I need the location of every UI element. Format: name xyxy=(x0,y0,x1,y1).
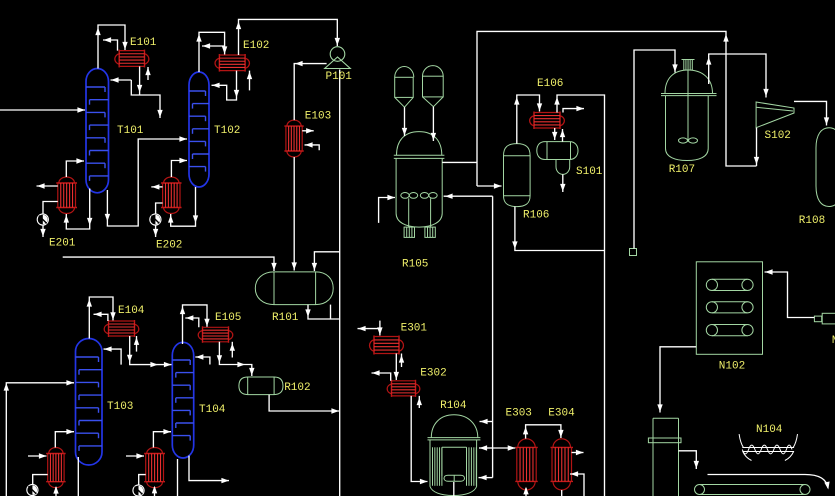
wire to E204 bottom xyxy=(152,486,157,496)
belt conveyor xyxy=(695,485,811,495)
heat exchanger E104 xyxy=(104,320,139,337)
svg-text:R108: R108 xyxy=(799,215,825,227)
wire T101 bottoms to T102 xyxy=(105,136,187,226)
svg-text:N104: N104 xyxy=(756,424,783,436)
screw feeder N104 xyxy=(739,434,797,460)
wire E104 outlet to T104 xyxy=(127,336,172,367)
wire E304 bottom xyxy=(561,490,563,496)
pump P101 xyxy=(325,47,351,69)
wire R101 outlet 2 xyxy=(330,305,332,319)
svg-text:E104: E104 xyxy=(118,305,145,317)
wire to E303 xyxy=(493,445,516,450)
svg-text:E102: E102 xyxy=(243,40,269,52)
wire pump discharge xyxy=(40,225,45,237)
wire E204 to pump xyxy=(139,475,146,485)
svg-text:N102: N102 xyxy=(719,361,745,373)
wire T103 overhead to E104 xyxy=(87,297,116,339)
wire E106 out down xyxy=(554,95,604,496)
wire T103 bottoms down xyxy=(77,457,79,496)
wire R106 bottoms xyxy=(512,207,604,251)
conveyor feeder N102 xyxy=(696,262,762,355)
wire belt discharge xyxy=(708,475,830,490)
wire to E203 bottom xyxy=(53,486,58,496)
wire to R104 dome xyxy=(480,419,493,424)
svg-text:E303: E303 xyxy=(506,407,532,419)
wire E303 to E304 xyxy=(523,425,564,439)
junction box xyxy=(630,249,637,256)
heat exchanger E105 xyxy=(198,326,233,343)
wire S101 bottoms xyxy=(560,174,565,192)
wire reflux to T101 xyxy=(111,77,132,82)
heat exchanger E201 xyxy=(56,177,77,214)
wire E105 vent stub xyxy=(185,315,199,327)
wire E101 vent stub xyxy=(103,37,118,50)
wire bin2 to R105 xyxy=(431,107,436,141)
wire to R106 xyxy=(477,183,502,188)
svg-text:E101: E101 xyxy=(130,37,157,49)
wire S101 to E106 xyxy=(560,129,565,142)
wire P101 to E103 xyxy=(294,61,326,120)
chute S102 xyxy=(756,102,794,128)
wire R105 nozzle xyxy=(442,161,477,163)
svg-text:S101: S101 xyxy=(576,166,603,178)
svg-text:R107: R107 xyxy=(669,164,695,176)
pump P-E204 xyxy=(133,485,144,496)
wire branch to R101 xyxy=(312,252,340,271)
svg-text:R101: R101 xyxy=(272,312,299,324)
wire T104 overhead to E105 xyxy=(180,305,210,344)
wire E203 return to T103 xyxy=(55,429,74,448)
wire E103 coolant out xyxy=(302,128,314,133)
standpipe silo xyxy=(648,418,681,496)
wire to R104 lower xyxy=(479,475,493,480)
wire reflux to T104 xyxy=(195,354,210,364)
wire T102 bottoms to E202 xyxy=(168,187,198,226)
wire E102 vent stub xyxy=(202,43,225,48)
wire E203 side xyxy=(28,453,47,458)
wire E101 coolant in xyxy=(145,67,150,80)
svg-text:E106: E106 xyxy=(537,78,563,90)
svg-text:R102: R102 xyxy=(284,382,310,394)
wire pump discharge 2 xyxy=(153,225,158,237)
wire bin1 to R105 xyxy=(402,107,407,136)
svg-text:R104: R104 xyxy=(440,400,467,412)
wire S102 bottoms xyxy=(754,128,759,166)
svg-text:R105: R105 xyxy=(402,259,428,271)
wire T104 bottoms down xyxy=(177,459,179,496)
wire R101 bottoms xyxy=(305,305,339,319)
wire E202 to pump xyxy=(156,203,163,214)
pump P-E203 xyxy=(27,484,38,495)
column T102 xyxy=(189,72,209,187)
svg-text:E301: E301 xyxy=(401,323,428,335)
wire E302 coolant in xyxy=(417,396,422,408)
svg-text:P101: P101 xyxy=(326,71,353,83)
svg-text:E302: E302 xyxy=(420,368,446,380)
heat exchanger E204 xyxy=(144,448,165,488)
pump P-E201 xyxy=(37,214,48,225)
reactor R105 xyxy=(394,132,445,238)
wire E303 bottom xyxy=(523,487,528,496)
wire R102 outlet xyxy=(269,395,339,414)
wire riser to R105 left xyxy=(379,195,395,223)
column T104 xyxy=(172,342,193,458)
wire E301 stub xyxy=(358,326,380,331)
svg-text:E201: E201 xyxy=(49,238,76,250)
wire E101 outlet xyxy=(137,66,142,95)
svg-text:E103: E103 xyxy=(305,110,331,122)
reactor R104 xyxy=(428,415,481,496)
wire E201 return to T101 xyxy=(66,158,84,177)
motor N103 xyxy=(814,313,835,324)
heat exchanger E301 xyxy=(370,336,404,355)
wire R107 overhead to S102 xyxy=(706,54,769,98)
wire E103 to R101 xyxy=(292,157,297,271)
wire T102 overhead to E102 xyxy=(196,32,227,72)
svg-text:S102: S102 xyxy=(765,130,791,142)
wire feed to T101 xyxy=(0,107,85,112)
wire S102 to R108 xyxy=(794,101,829,125)
svg-text:T101: T101 xyxy=(117,125,144,137)
wire E201 to pump xyxy=(43,202,58,215)
wire R105 takeoff main xyxy=(492,196,494,477)
wire E304 out xyxy=(572,450,584,455)
wire to E301 xyxy=(377,321,382,336)
reactor R107 xyxy=(661,60,717,161)
wire feed to R101 xyxy=(63,257,277,271)
wire E106 stub xyxy=(563,106,584,113)
wire E102 coolant in xyxy=(247,71,252,91)
wire recycle loop xyxy=(477,31,757,186)
wire E301 to E302 xyxy=(394,354,399,381)
wire E204 return to T104 xyxy=(153,429,171,448)
vessel R108 xyxy=(816,128,835,207)
wire E105 coolant in xyxy=(230,342,235,358)
feed bin 2 xyxy=(423,66,444,107)
heat exchanger E302 xyxy=(387,380,420,397)
wire E204 side xyxy=(126,453,144,458)
wire R105 right inlet xyxy=(444,194,493,199)
column T101 xyxy=(86,69,109,193)
svg-text:T102: T102 xyxy=(214,125,240,137)
wire distillate draw xyxy=(131,80,162,118)
column T103 xyxy=(76,339,103,466)
heat exchanger E202 xyxy=(161,177,181,214)
svg-text:E105: E105 xyxy=(215,312,241,324)
wire E105 outlet to R102 xyxy=(217,342,255,376)
wire R106 overhead to E106 xyxy=(514,95,542,144)
wire E203 to pump xyxy=(33,475,48,485)
wire T101 overhead to E101 xyxy=(95,25,127,69)
drum R102 xyxy=(239,377,283,395)
pump P-E202 xyxy=(150,214,161,225)
wire P101 discharge main xyxy=(339,70,341,496)
wire reflux to T103 xyxy=(104,346,122,364)
heat exchanger E203 xyxy=(46,448,65,488)
wire E103 coolant in xyxy=(305,142,320,150)
svg-text:E304: E304 xyxy=(548,407,575,419)
wire T101 bottoms to E201 xyxy=(64,189,93,230)
wire E202 return to T102 xyxy=(171,158,187,177)
wire E202 product out xyxy=(151,184,162,189)
svg-text:E202: E202 xyxy=(156,240,182,252)
heat exchanger E102 xyxy=(215,54,249,72)
heat exchanger E101 xyxy=(115,50,149,68)
wire E102 outlet reflux xyxy=(212,71,240,100)
wire E104 coolant in xyxy=(134,336,139,352)
drum R101 xyxy=(255,272,333,305)
wire E102 to pump P101 xyxy=(236,19,340,55)
wire feed to R107 xyxy=(634,50,678,249)
wire E106 to S101 xyxy=(552,128,557,140)
wire silo to belt xyxy=(679,451,700,469)
wire E304 coolant xyxy=(570,471,584,496)
wire E104 vent stub xyxy=(94,312,108,321)
svg-text:R106: R106 xyxy=(523,210,549,222)
wire E301 coolant in xyxy=(399,354,404,368)
wire R104 bottom xyxy=(453,482,455,496)
wire N103 to N102 xyxy=(765,269,815,317)
wire N102 to silo xyxy=(657,347,696,413)
svg-text:T104: T104 xyxy=(199,404,226,416)
wire E302 outlet to R104 xyxy=(411,396,427,484)
wire to R104 right xyxy=(479,445,493,450)
heat exchanger E304 xyxy=(551,439,574,490)
heat exchanger E103 xyxy=(284,120,303,157)
heat exchanger E106 xyxy=(530,112,565,130)
wire E302 stub xyxy=(372,370,391,381)
heat exchanger E303 xyxy=(515,439,537,490)
wire feed to T103 xyxy=(4,380,74,496)
wire E201 product out xyxy=(37,183,58,188)
svg-text:T103: T103 xyxy=(107,401,133,413)
wire T104 bottoms right xyxy=(189,456,229,484)
feed bin 1 xyxy=(395,67,414,108)
vessel R106 xyxy=(504,144,531,207)
separator S101 xyxy=(537,142,578,175)
